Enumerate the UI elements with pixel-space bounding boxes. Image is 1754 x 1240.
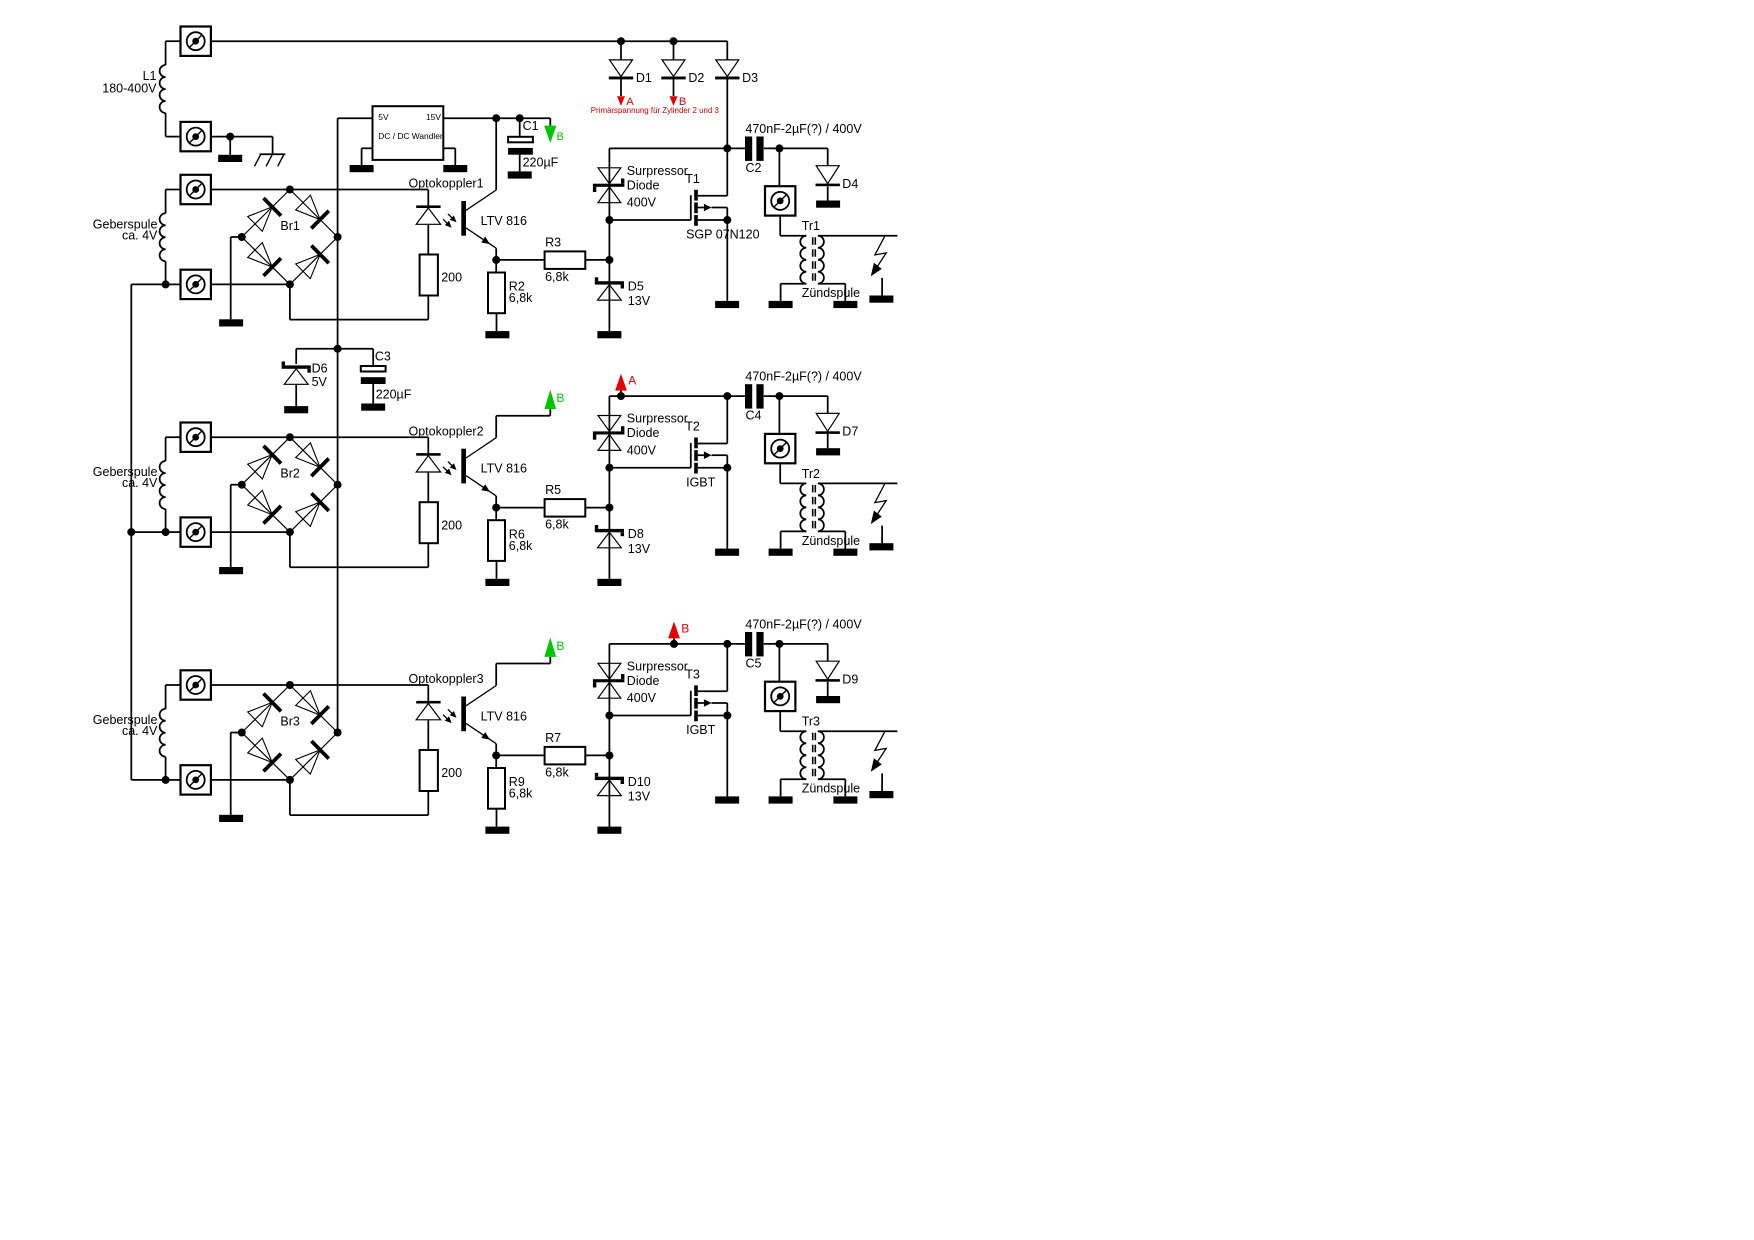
wire gate resistor to zener node (585, 504, 613, 512)
wire IGBT source to ground (726, 716, 728, 797)
terminal output 2 (765, 434, 795, 463)
diode D7 (816, 396, 859, 448)
suppressor diode 400V (593, 412, 688, 458)
wire 5V bus to C3 (338, 349, 374, 366)
wire to IGBT gate (605, 712, 690, 720)
bridge rectifier Br3 (238, 681, 342, 784)
ground (T2) (715, 549, 739, 556)
svg-text:R5: R5 (545, 483, 561, 497)
ground (spark gap) (869, 791, 893, 798)
wire bridge minus to ground (231, 485, 242, 567)
pickup coil Geberspule 3 (160, 709, 166, 757)
wire pickup top lead (166, 685, 181, 709)
svg-text:IGBT: IGBT (686, 723, 716, 737)
wire D3 cathode to rail (726, 79, 728, 148)
terminal X2 (supply input -) (181, 122, 211, 151)
wire pickup bottom lead (162, 261, 181, 288)
zener diode D5 13V (595, 277, 651, 308)
svg-text:470nF-2µF(?) / 400V: 470nF-2µF(?) / 400V (745, 617, 862, 631)
light arrows (443, 462, 457, 476)
svg-text:6,8k: 6,8k (545, 766, 569, 780)
svg-text:T2: T2 (685, 420, 700, 434)
wire bridge minus to ground (231, 237, 242, 319)
capacitor C3 220µF (361, 349, 412, 403)
optocoupler Optokoppler3 phototransistor (461, 686, 527, 732)
terminal pickup 2 top (181, 423, 211, 452)
svg-text:Br3: Br3 (280, 715, 300, 729)
wire IGBT source to ground (726, 468, 728, 549)
transistor T2 (IGBT) (685, 396, 731, 489)
capacitor C4 470nF-2µF / 400V (745, 370, 862, 423)
svg-text:ca. 4V: ca. 4V (122, 476, 158, 490)
transistor T3 (IGBT) (685, 644, 731, 737)
svg-text:D7: D7 (842, 425, 858, 439)
svg-text:D2: D2 (688, 71, 704, 85)
wire pickup bottom rail (211, 283, 290, 285)
spark gap (871, 484, 886, 543)
wire opto emitter (466, 228, 500, 264)
ground (bridge 3) (219, 815, 243, 822)
wire opto1 collector to 15V (495, 118, 497, 190)
transformer Tr2 primary (781, 483, 807, 548)
ground (D9) (816, 696, 840, 703)
wire opto collector to supply B (496, 416, 550, 438)
transformer core (813, 237, 816, 282)
svg-text:15V: 15V (426, 112, 441, 122)
svg-text:Surpressor: Surpressor (627, 659, 688, 673)
svg-text:Zündspule: Zündspule (802, 782, 860, 796)
wire to IGBT gate (605, 216, 690, 224)
resistor R7 6,8k (545, 731, 586, 780)
ground (D7) (816, 448, 840, 455)
wire gate resistor to zener node (585, 751, 613, 759)
ground (secondary) (833, 796, 857, 803)
wire L1 top lead (166, 41, 181, 65)
svg-text:C4: C4 (746, 409, 762, 423)
ground (secondary) (833, 549, 857, 556)
ground (primary) (769, 301, 793, 308)
svg-text:D3: D3 (742, 71, 758, 85)
svg-text:470nF-2µF(?) / 400V: 470nF-2µF(?) / 400V (745, 370, 862, 384)
wire U1 ground pin right (443, 148, 455, 165)
resistor 200 (420, 502, 463, 543)
transformer Tr3 primary (781, 731, 807, 796)
wire opto emitter (466, 723, 500, 759)
wire to chassis (272, 137, 274, 155)
label Geberspule ca. 4V (93, 465, 158, 490)
bridge rectifier Br1 (238, 186, 342, 289)
suppressor diode 400V (593, 659, 688, 705)
wire resistor to ground (496, 809, 498, 827)
svg-text:C5: C5 (746, 656, 762, 670)
resistor 200 (420, 255, 463, 296)
wire pickup top lead (166, 190, 181, 214)
ground (spark gap) (869, 296, 893, 303)
wire IGBT source to ground (726, 220, 728, 301)
label Geberspule ca. 4V (93, 217, 158, 242)
label Geberspule ca. 4V (93, 713, 158, 738)
ground (D4) (816, 201, 840, 208)
ground (secondary) (833, 301, 857, 308)
svg-text:C1: C1 (523, 119, 539, 133)
svg-text:180-400V: 180-400V (102, 81, 157, 95)
wire to ground (229, 137, 231, 155)
wire emitter to gate resistor (496, 754, 544, 756)
ground (bridge 2) (219, 567, 243, 574)
wire opto emitter (466, 476, 500, 512)
diode D2 (661, 41, 704, 85)
wire LED return (290, 284, 428, 319)
diode D3 (715, 41, 758, 85)
wire bridge minus to ground (231, 733, 242, 815)
capacitor C5 470nF-2µF / 400V (745, 617, 862, 670)
svg-text:Optokoppler1: Optokoppler1 (409, 177, 484, 191)
svg-text:B: B (556, 639, 564, 653)
chassis ground (255, 154, 286, 166)
suppressor diode 400V (593, 164, 688, 210)
diode D1 (609, 41, 652, 85)
wire to pulldown resistor (495, 260, 497, 273)
ground (R9) (485, 827, 509, 834)
wire resistor to ground (496, 561, 498, 579)
wire 5V input (338, 117, 373, 119)
svg-text:Diode: Diode (627, 178, 660, 192)
transformer Tr1 primary (781, 236, 807, 301)
zener diode D6 5V (282, 362, 328, 407)
diode D9 (816, 644, 859, 696)
svg-text:D10: D10 (628, 775, 651, 789)
ground (spark gap) (869, 543, 893, 550)
wire pickup top rail (211, 436, 428, 438)
svg-text:Tr2: Tr2 (802, 467, 820, 481)
spark gap (871, 236, 886, 295)
svg-text:Tr1: Tr1 (802, 219, 820, 233)
svg-text:SGP 07N120: SGP 07N120 (686, 228, 759, 242)
wire supply return / node junction (211, 133, 273, 141)
ground (D8) (597, 579, 621, 586)
wire gate resistor to zener node (585, 256, 613, 264)
svg-text:IGBT: IGBT (686, 475, 716, 489)
optocoupler Optokoppler3 LED (409, 672, 484, 750)
wire opto collector to supply B (496, 664, 550, 686)
svg-text:D5: D5 (628, 280, 644, 294)
ground (D10) (597, 827, 621, 834)
wire pickup top lead (166, 437, 181, 461)
svg-text:T1: T1 (685, 172, 700, 186)
svg-text:T3: T3 (685, 668, 700, 682)
wire LED return (290, 780, 428, 815)
svg-text:220µF: 220µF (376, 388, 412, 402)
wire LED return (290, 532, 428, 567)
wire emitter to gate resistor (496, 507, 544, 509)
svg-text:200: 200 (441, 518, 462, 532)
wire suppressor column (608, 148, 610, 331)
wire to pulldown resistor (495, 755, 497, 768)
svg-text:A: A (628, 374, 636, 388)
transformer Tr2 secondary (802, 467, 898, 549)
terminal X1 (supply input +) (181, 27, 211, 56)
svg-text:200: 200 (441, 271, 462, 285)
terminal pickup 2 bottom (181, 517, 211, 546)
net label A (input) (615, 374, 636, 401)
ground (D6) (284, 406, 308, 413)
ground (C1) (508, 171, 532, 178)
node A output marker (617, 79, 634, 108)
svg-text:13V: 13V (628, 790, 651, 804)
net label B (15V supply) (544, 118, 564, 143)
wire suppressor rail (609, 392, 827, 400)
wire to output terminal (778, 644, 780, 682)
svg-text:D4: D4 (842, 177, 858, 191)
svg-text:ca. 4V: ca. 4V (122, 228, 158, 242)
wire U1 ground pin left (362, 148, 373, 165)
wire terminal to primary (780, 463, 806, 483)
resistor R2 6,8k (488, 273, 533, 314)
optocoupler Optokoppler1 LED (409, 177, 484, 255)
svg-text:Diode: Diode (627, 426, 660, 440)
optocoupler Optokoppler1 phototransistor (461, 190, 527, 236)
terminal pickup 3 bottom (181, 765, 211, 794)
svg-text:DC / DC Wandler: DC / DC Wandler (378, 131, 443, 141)
svg-text:Zündspule: Zündspule (802, 286, 860, 300)
wire suppressor column (608, 396, 610, 579)
svg-text:Zündspule: Zündspule (802, 534, 860, 548)
svg-text:C2: C2 (746, 161, 762, 175)
label L1 180-400V (102, 69, 157, 95)
ground (primary) (769, 549, 793, 556)
ground (bridge 1) (219, 319, 243, 326)
wire 15V rail (443, 114, 550, 122)
svg-text:220µF: 220µF (523, 156, 559, 170)
wire top rail to D1 D2 D3 (211, 37, 727, 45)
resistor R6 6,8k (488, 520, 533, 561)
capacitor C2 470nF-2µF / 400V (745, 122, 862, 175)
diode D4 (816, 148, 859, 200)
ground (D5) (597, 331, 621, 338)
wire suppressor column (608, 644, 610, 827)
wire to IGBT gate (605, 464, 690, 472)
svg-text:Diode: Diode (627, 674, 660, 688)
wire pickup bottom lead (162, 757, 181, 784)
svg-text:Br1: Br1 (280, 219, 300, 233)
pickup coil Geberspule 1 (160, 213, 166, 261)
wire to output terminal (778, 148, 780, 186)
svg-text:Tr3: Tr3 (802, 715, 820, 729)
pickup coil Geberspule 2 (160, 461, 166, 509)
terminal pickup 1 bottom (181, 270, 211, 299)
svg-text:D8: D8 (628, 527, 644, 541)
terminal output 3 (765, 682, 795, 711)
svg-text:470nF-2µF(?) / 400V: 470nF-2µF(?) / 400V (745, 122, 862, 136)
wire pickup top rail (211, 684, 428, 686)
wire pickup bottom lead (162, 509, 181, 536)
wire terminal to primary (780, 216, 806, 236)
svg-text:400V: 400V (627, 691, 657, 705)
zener diode D8 13V (595, 525, 651, 556)
node B output marker (670, 79, 687, 108)
terminal pickup 3 top (181, 670, 211, 699)
wire terminal to primary (780, 711, 806, 731)
wire resistor to ground (496, 313, 498, 331)
svg-text:200: 200 (441, 766, 462, 780)
svg-text:Primärspannung für Zylinder 2: Primärspannung für Zylinder 2 und 3 (591, 106, 720, 115)
light arrows (443, 214, 457, 228)
svg-text:6,8k: 6,8k (509, 539, 533, 553)
net label B (input) (668, 621, 689, 648)
svg-text:13V: 13V (628, 294, 651, 308)
terminal pickup 1 top (181, 175, 211, 204)
transistor T1 (SGP 07N120) (685, 148, 759, 241)
wire emitter to gate resistor (496, 259, 544, 261)
wire pickup bottom rail (211, 779, 290, 781)
net label B (supply) (544, 638, 564, 664)
svg-text:R7: R7 (545, 731, 561, 745)
resistor R9 6,8k (488, 768, 533, 809)
label Primärspannung für Zylinder 2 und 3 (591, 106, 720, 115)
capacitor C1 220µF (508, 118, 559, 171)
inductor L1 (160, 65, 166, 113)
svg-text:Optokoppler3: Optokoppler3 (409, 672, 484, 686)
svg-text:6,8k: 6,8k (545, 518, 569, 532)
wire to output terminal (778, 396, 780, 434)
svg-text:6,8k: 6,8k (545, 270, 569, 284)
svg-text:13V: 13V (628, 542, 651, 556)
spark gap (871, 732, 886, 791)
svg-text:LTV 816: LTV 816 (481, 214, 527, 228)
resistor R3 6,8k (545, 236, 586, 285)
svg-text:400V: 400V (627, 196, 657, 210)
svg-text:R3: R3 (545, 236, 561, 250)
svg-text:400V: 400V (627, 443, 657, 457)
svg-text:5V: 5V (312, 375, 328, 389)
terminal output 1 (765, 186, 795, 215)
optocoupler Optokoppler2 phototransistor (461, 438, 527, 484)
resistor 200 (420, 750, 463, 791)
ground (T3) (715, 796, 739, 803)
optocoupler Optokoppler2 LED (409, 424, 484, 502)
svg-text:6,8k: 6,8k (509, 787, 533, 801)
ground (R6) (485, 579, 509, 586)
svg-text:B: B (556, 391, 564, 405)
svg-text:Surpressor: Surpressor (627, 164, 688, 178)
svg-text:6,8k: 6,8k (509, 291, 533, 305)
svg-text:D1: D1 (636, 71, 652, 85)
DC/DC converter U1 (373, 106, 444, 160)
ground (supply) (218, 155, 242, 162)
svg-text:B: B (681, 621, 689, 635)
light arrows (443, 709, 457, 723)
svg-text:LTV 816: LTV 816 (481, 710, 527, 724)
ground (primary) (769, 796, 793, 803)
ground (T1) (715, 301, 739, 308)
ground (U1 right) (443, 165, 467, 172)
svg-text:C3: C3 (375, 349, 391, 363)
svg-text:D6: D6 (312, 362, 328, 376)
svg-text:D9: D9 (842, 673, 858, 687)
svg-text:ca. 4V: ca. 4V (122, 724, 158, 738)
svg-text:B: B (557, 131, 564, 143)
svg-text:Surpressor: Surpressor (627, 412, 688, 426)
svg-text:LTV 816: LTV 816 (481, 462, 527, 476)
transformer Tr1 secondary (802, 219, 898, 301)
wire pickup top rail (211, 189, 428, 191)
svg-text:Br2: Br2 (280, 467, 300, 481)
wire pickup common bus (127, 284, 165, 780)
transformer core (813, 733, 816, 778)
ground (C3) (361, 404, 385, 411)
net label B (supply) (544, 390, 564, 416)
wire L1 bottom lead (166, 113, 181, 137)
zener diode D10 13V (595, 773, 651, 804)
resistor R5 6,8k (545, 483, 586, 532)
wire pickup bottom rail (211, 531, 290, 533)
svg-text:Optokoppler2: Optokoppler2 (409, 424, 484, 438)
transformer Tr3 secondary (802, 715, 898, 797)
svg-text:5V: 5V (378, 112, 389, 122)
wire 5V bus vertical (337, 118, 339, 732)
ground (R2) (485, 331, 509, 338)
bridge rectifier Br2 (238, 433, 342, 536)
wire suppressor rail (609, 640, 827, 648)
transformer core (813, 485, 816, 530)
wire 5V bus to D6 (296, 345, 341, 364)
wire to pulldown resistor (495, 508, 497, 521)
wire suppressor rail (609, 144, 827, 152)
ground (U1 left) (350, 165, 374, 172)
